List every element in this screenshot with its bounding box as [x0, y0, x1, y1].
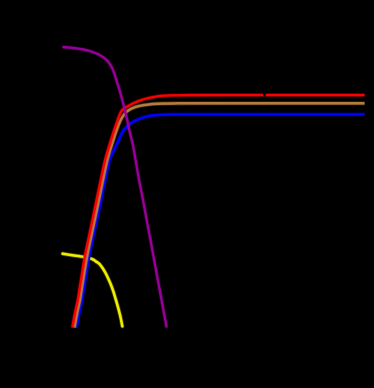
- curve blue (lowest plateau): [77, 114, 365, 327]
- curve yellow (deuterium-like small hump): [63, 254, 123, 327]
- curve brown (middle plateau): [74, 103, 364, 327]
- curve red (top plateau): [72, 95, 364, 328]
- curve purple (steep decay): [62, 47, 166, 328]
- black wedge over red line (hidden label overlap): [262, 93, 266, 97]
